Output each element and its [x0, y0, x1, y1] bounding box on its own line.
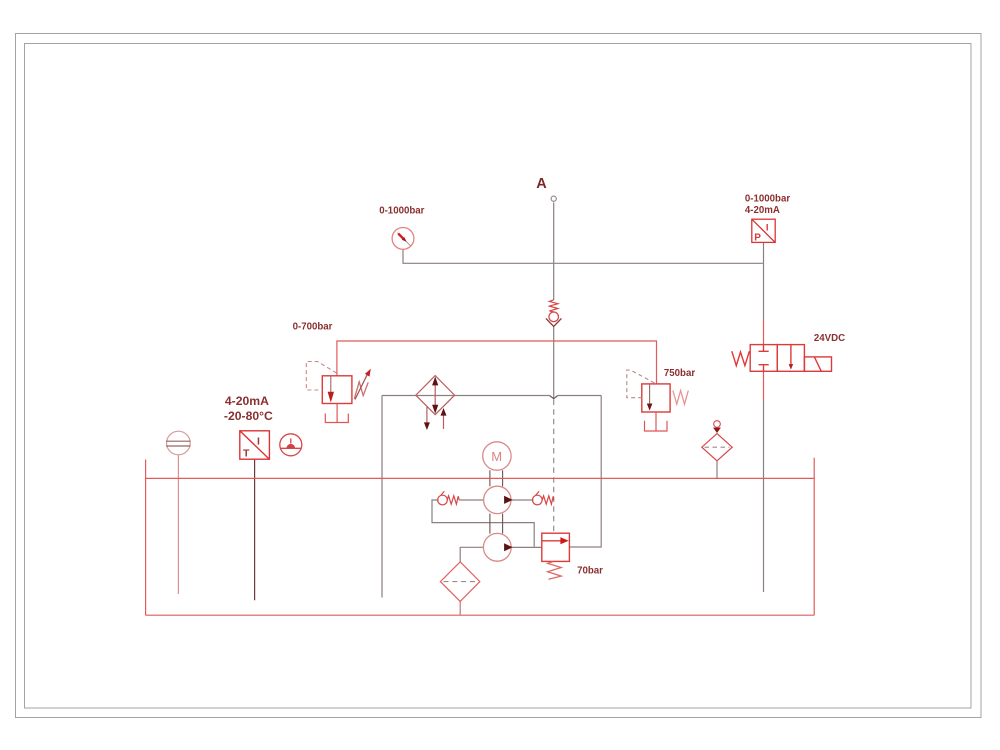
- svg-text:4-20mA: 4-20mA: [225, 394, 269, 408]
- svg-text:P: P: [754, 233, 761, 244]
- svg-text:0-1000bar: 0-1000bar: [745, 194, 790, 205]
- svg-text:750bar: 750bar: [664, 368, 695, 379]
- svg-text:I: I: [766, 223, 769, 234]
- svg-text:M: M: [491, 449, 502, 464]
- svg-text:0-1000bar: 0-1000bar: [379, 206, 424, 217]
- svg-text:4-20mA: 4-20mA: [745, 205, 780, 216]
- svg-text:0-700bar: 0-700bar: [293, 321, 333, 332]
- svg-text:A: A: [536, 176, 547, 192]
- svg-text:I: I: [257, 435, 260, 447]
- svg-text:24VDC: 24VDC: [814, 333, 845, 344]
- svg-text:70bar: 70bar: [577, 566, 603, 577]
- svg-text:-20-80°C: -20-80°C: [224, 409, 273, 423]
- svg-text:T: T: [243, 447, 250, 459]
